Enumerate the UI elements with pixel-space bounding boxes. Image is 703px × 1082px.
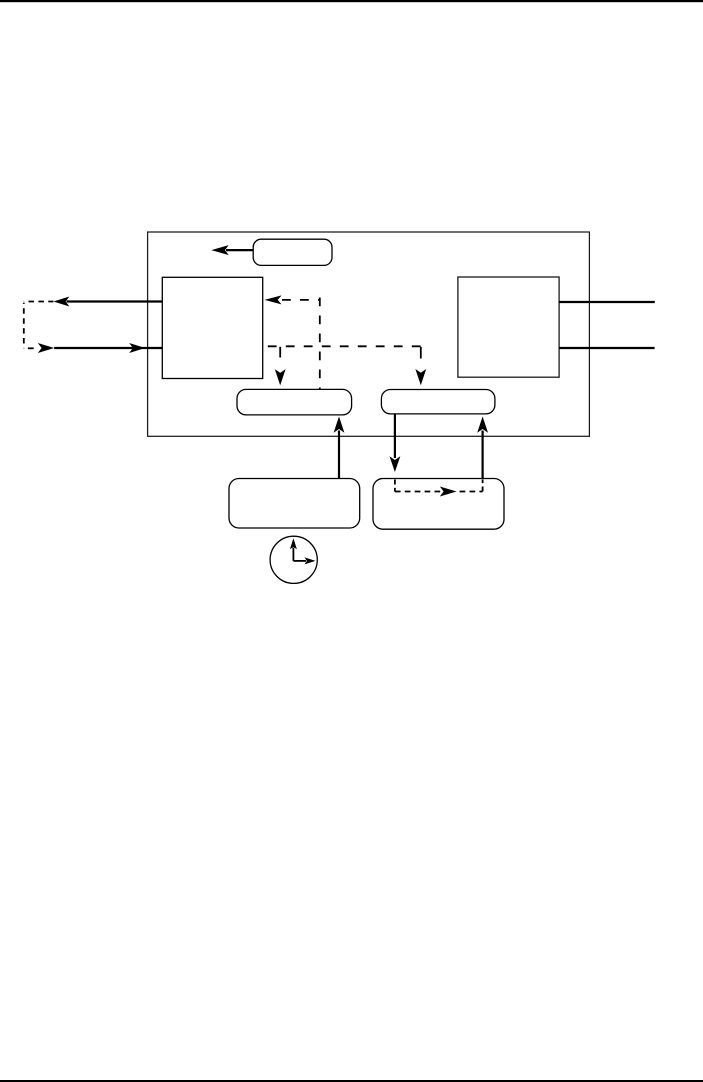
dashed stub inside block F rising on the right <box>482 480 484 492</box>
dashed arrow: drop down into rounded block D <box>415 347 426 386</box>
header rule <box>0 0 703 2</box>
wire: lower bus line from block B to right edge <box>559 347 655 349</box>
arrow: loopback re-entering lower bus pointing right <box>38 343 163 353</box>
dashed wire: vertical from that arrow down to rounded block C <box>319 298 321 390</box>
dashed wire: horizontal from block A right edge toward block D <box>263 345 421 347</box>
outer system enclosure box <box>148 232 590 436</box>
block A (left square box) <box>162 277 262 378</box>
wire: upper bus line out of block A to the left with arrowhead <box>53 297 162 307</box>
dashed stub inside block F below the down arrow <box>394 480 396 492</box>
arrow from block U1 pointing left <box>211 245 253 255</box>
block E (bottom-left rounded box) <box>229 479 360 529</box>
wire: upper bus line from block B to right edge <box>559 301 655 303</box>
clock symbol circle <box>270 536 317 583</box>
clock hand pointing up <box>290 538 297 561</box>
solid arrow: from block F up into rounded block D <box>477 417 488 479</box>
block B (right square box) <box>458 277 559 377</box>
block U1 (top small rounded box) <box>253 239 332 265</box>
solid arrow: from rounded block D down toward block F <box>390 414 401 472</box>
solid arrow: from block E up into rounded block C <box>334 417 345 479</box>
dashed arrow into right side of block A <box>265 295 320 304</box>
dashed arrow: drop down into rounded block C <box>275 347 286 386</box>
rounded block D (inner lower-right) <box>381 390 495 414</box>
clock hand pointing right <box>293 557 315 564</box>
dashed wire with arrow inside block F pointing right <box>395 487 483 497</box>
dashed wire: loopback from upper bus down the left side <box>24 302 54 349</box>
footer rule <box>0 1080 703 1082</box>
rounded block C (inner lower-left) <box>237 389 352 415</box>
block F (bottom-right rounded box) <box>373 479 504 530</box>
